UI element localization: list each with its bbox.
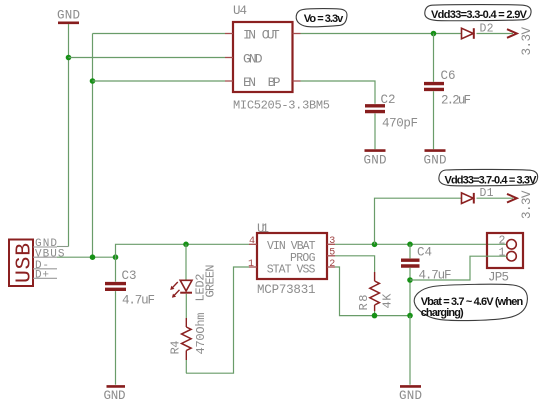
wire VBUS vertical riser x=92 [92, 34, 94, 258]
svg-text:GND: GND [399, 389, 422, 403]
svg-text:C2: C2 [381, 93, 396, 107]
svg-text:U4: U4 [233, 4, 247, 18]
wire PROG to R8 [335, 256, 375, 272]
node junction C4 tap [407, 242, 413, 248]
node 3.3V arrow (bottom) [507, 190, 534, 219]
svg-text:3: 3 [329, 236, 335, 247]
annotation callout Vo = 3.3v [296, 9, 347, 27]
svg-text:GND: GND [424, 154, 447, 168]
svg-text:Vdd33=3.3-0.4 = 2.9V: Vdd33=3.3-0.4 = 2.9V [431, 9, 528, 21]
svg-text:charging): charging) [421, 307, 464, 319]
wire D1 cathode to arrow [477, 197, 514, 199]
wire R4 bottom to U1 STAT [186, 267, 249, 373]
svg-text:D2: D2 [480, 23, 494, 36]
svg-text:4.7uF: 4.7uF [122, 293, 155, 307]
node junction C4 ground column [407, 313, 413, 319]
svg-text:JP5: JP5 [488, 270, 509, 284]
svg-text:2: 2 [329, 259, 335, 270]
svg-text:2.2uF: 2.2uF [441, 94, 471, 108]
ground GND (top left) [57, 9, 80, 23]
annotation callout Vdd33=3.3-0.4 = 2.9V [425, 5, 531, 21]
ground GND (bottom right) [399, 386, 422, 402]
node junction C3 tap [113, 254, 119, 260]
diode D2 [462, 23, 494, 39]
node junction C6 tap [431, 31, 437, 37]
svg-text:MCP73831: MCP73831 [257, 283, 316, 297]
diode D1 [462, 187, 494, 204]
svg-text:GND: GND [364, 154, 387, 168]
wire VBAT rail [335, 243, 507, 245]
capacitor C6 2.2uF [424, 34, 471, 150]
resistor R8 4K [357, 272, 395, 316]
svg-text:4: 4 [249, 236, 255, 247]
svg-text:3.3V: 3.3V [520, 27, 534, 56]
svg-text:GND: GND [104, 389, 126, 403]
node 3.3V arrow (top) [507, 27, 534, 56]
capacitor C3 4.7uF [105, 257, 155, 385]
svg-text:C3: C3 [122, 269, 137, 283]
svg-text:Vo = 3.3v: Vo = 3.3v [304, 13, 344, 25]
svg-text:GREEN: GREEN [204, 265, 218, 298]
svg-text:R4: R4 [169, 341, 183, 355]
resistor R4 470Ohm [169, 313, 209, 374]
wire JP5 pin1 to C4 junction [410, 256, 507, 280]
node junction D1 riser [372, 242, 378, 248]
svg-text:VIN VBAT: VIN VBAT [267, 240, 316, 253]
ground GND (below C3) [104, 386, 126, 402]
annotation callout Vdd33=3.7-0.4 = 3.3V [439, 169, 538, 186]
op-amp U1 MCP73831 charger [248, 222, 335, 297]
svg-text:EN: EN [243, 75, 256, 90]
LED LED2 GREEN [170, 244, 217, 318]
annotation callout Vbat = 3.7 ~ 4.6V (when charging) [414, 284, 527, 320]
wire 3.3V rail from OUT [301, 33, 462, 35]
svg-text:D+: D+ [35, 269, 49, 281]
node junction GND tap to U4 [66, 55, 72, 61]
svg-text:1: 1 [248, 259, 254, 270]
node junction VBUS riser [90, 254, 96, 260]
svg-text:Vdd33=3.7-0.4 = 3.3V: Vdd33=3.7-0.4 = 3.3V [445, 175, 538, 187]
svg-text:R8: R8 [357, 295, 371, 311]
svg-text:GND: GND [243, 52, 263, 67]
connector JP5 [487, 233, 523, 284]
svg-text:470Ohm: 470Ohm [194, 313, 208, 355]
svg-text:USB: USB [13, 243, 37, 283]
svg-text:STAT VSS: STAT VSS [267, 264, 316, 277]
wire VSS to ground rail [335, 267, 410, 316]
USB connector J-USB [9, 238, 65, 286]
capacitor C2 470pF [365, 93, 418, 149]
svg-text:IN: IN [243, 27, 256, 42]
wire to U4 EN pin [93, 80, 226, 82]
op-amp U4 MIC5205 regulator [225, 4, 330, 113]
svg-text:4K: 4K [381, 293, 395, 309]
svg-text:MIC5205-3.3BM5: MIC5205-3.3BM5 [233, 99, 330, 113]
node junction LED2 tap [183, 242, 189, 248]
svg-text:VBUS: VBUS [35, 248, 65, 260]
svg-text:C4: C4 [417, 245, 432, 259]
svg-text:3.3V: 3.3V [520, 190, 534, 219]
wire to U4 IN pin [93, 33, 226, 35]
node junction R8 bottom [372, 313, 378, 319]
svg-text:BP: BP [268, 75, 281, 90]
svg-text:OUT: OUT [262, 27, 280, 42]
capacitor C4 4.7uF [401, 244, 452, 315]
wire D2 cathode to arrow [477, 33, 514, 35]
svg-text:470pF: 470pF [382, 117, 418, 131]
svg-text:1: 1 [499, 247, 506, 260]
svg-text:C6: C6 [441, 69, 456, 83]
wire GND row to U4 GND pin [69, 57, 226, 59]
node junction EN tap [90, 78, 96, 84]
wire VBUS row [57, 256, 116, 258]
wire riser to D1 rail [375, 198, 462, 244]
wire VBUS up and right to U1 VIN [116, 244, 250, 257]
wire down to GND [409, 316, 411, 385]
ground GND (below C2) [364, 151, 387, 168]
ground GND (below C6) [424, 151, 447, 168]
svg-text:GND: GND [57, 9, 80, 23]
svg-text:5: 5 [329, 248, 335, 259]
node junction C4/JP5 pin1 [407, 277, 413, 283]
wire BP to C2 [301, 81, 376, 104]
svg-text:D1: D1 [480, 187, 494, 200]
wire GND net vertical from top GND to USB GND pin [57, 24, 69, 247]
